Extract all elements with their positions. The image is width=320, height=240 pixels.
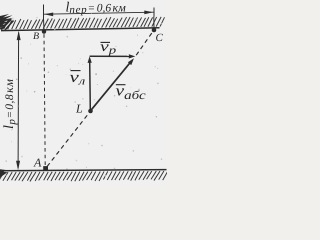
svg-text:A: A [33,156,42,170]
svg-text:C: C [156,32,164,44]
svg-text:L: L [75,101,83,115]
svg-text:B: B [33,31,39,42]
